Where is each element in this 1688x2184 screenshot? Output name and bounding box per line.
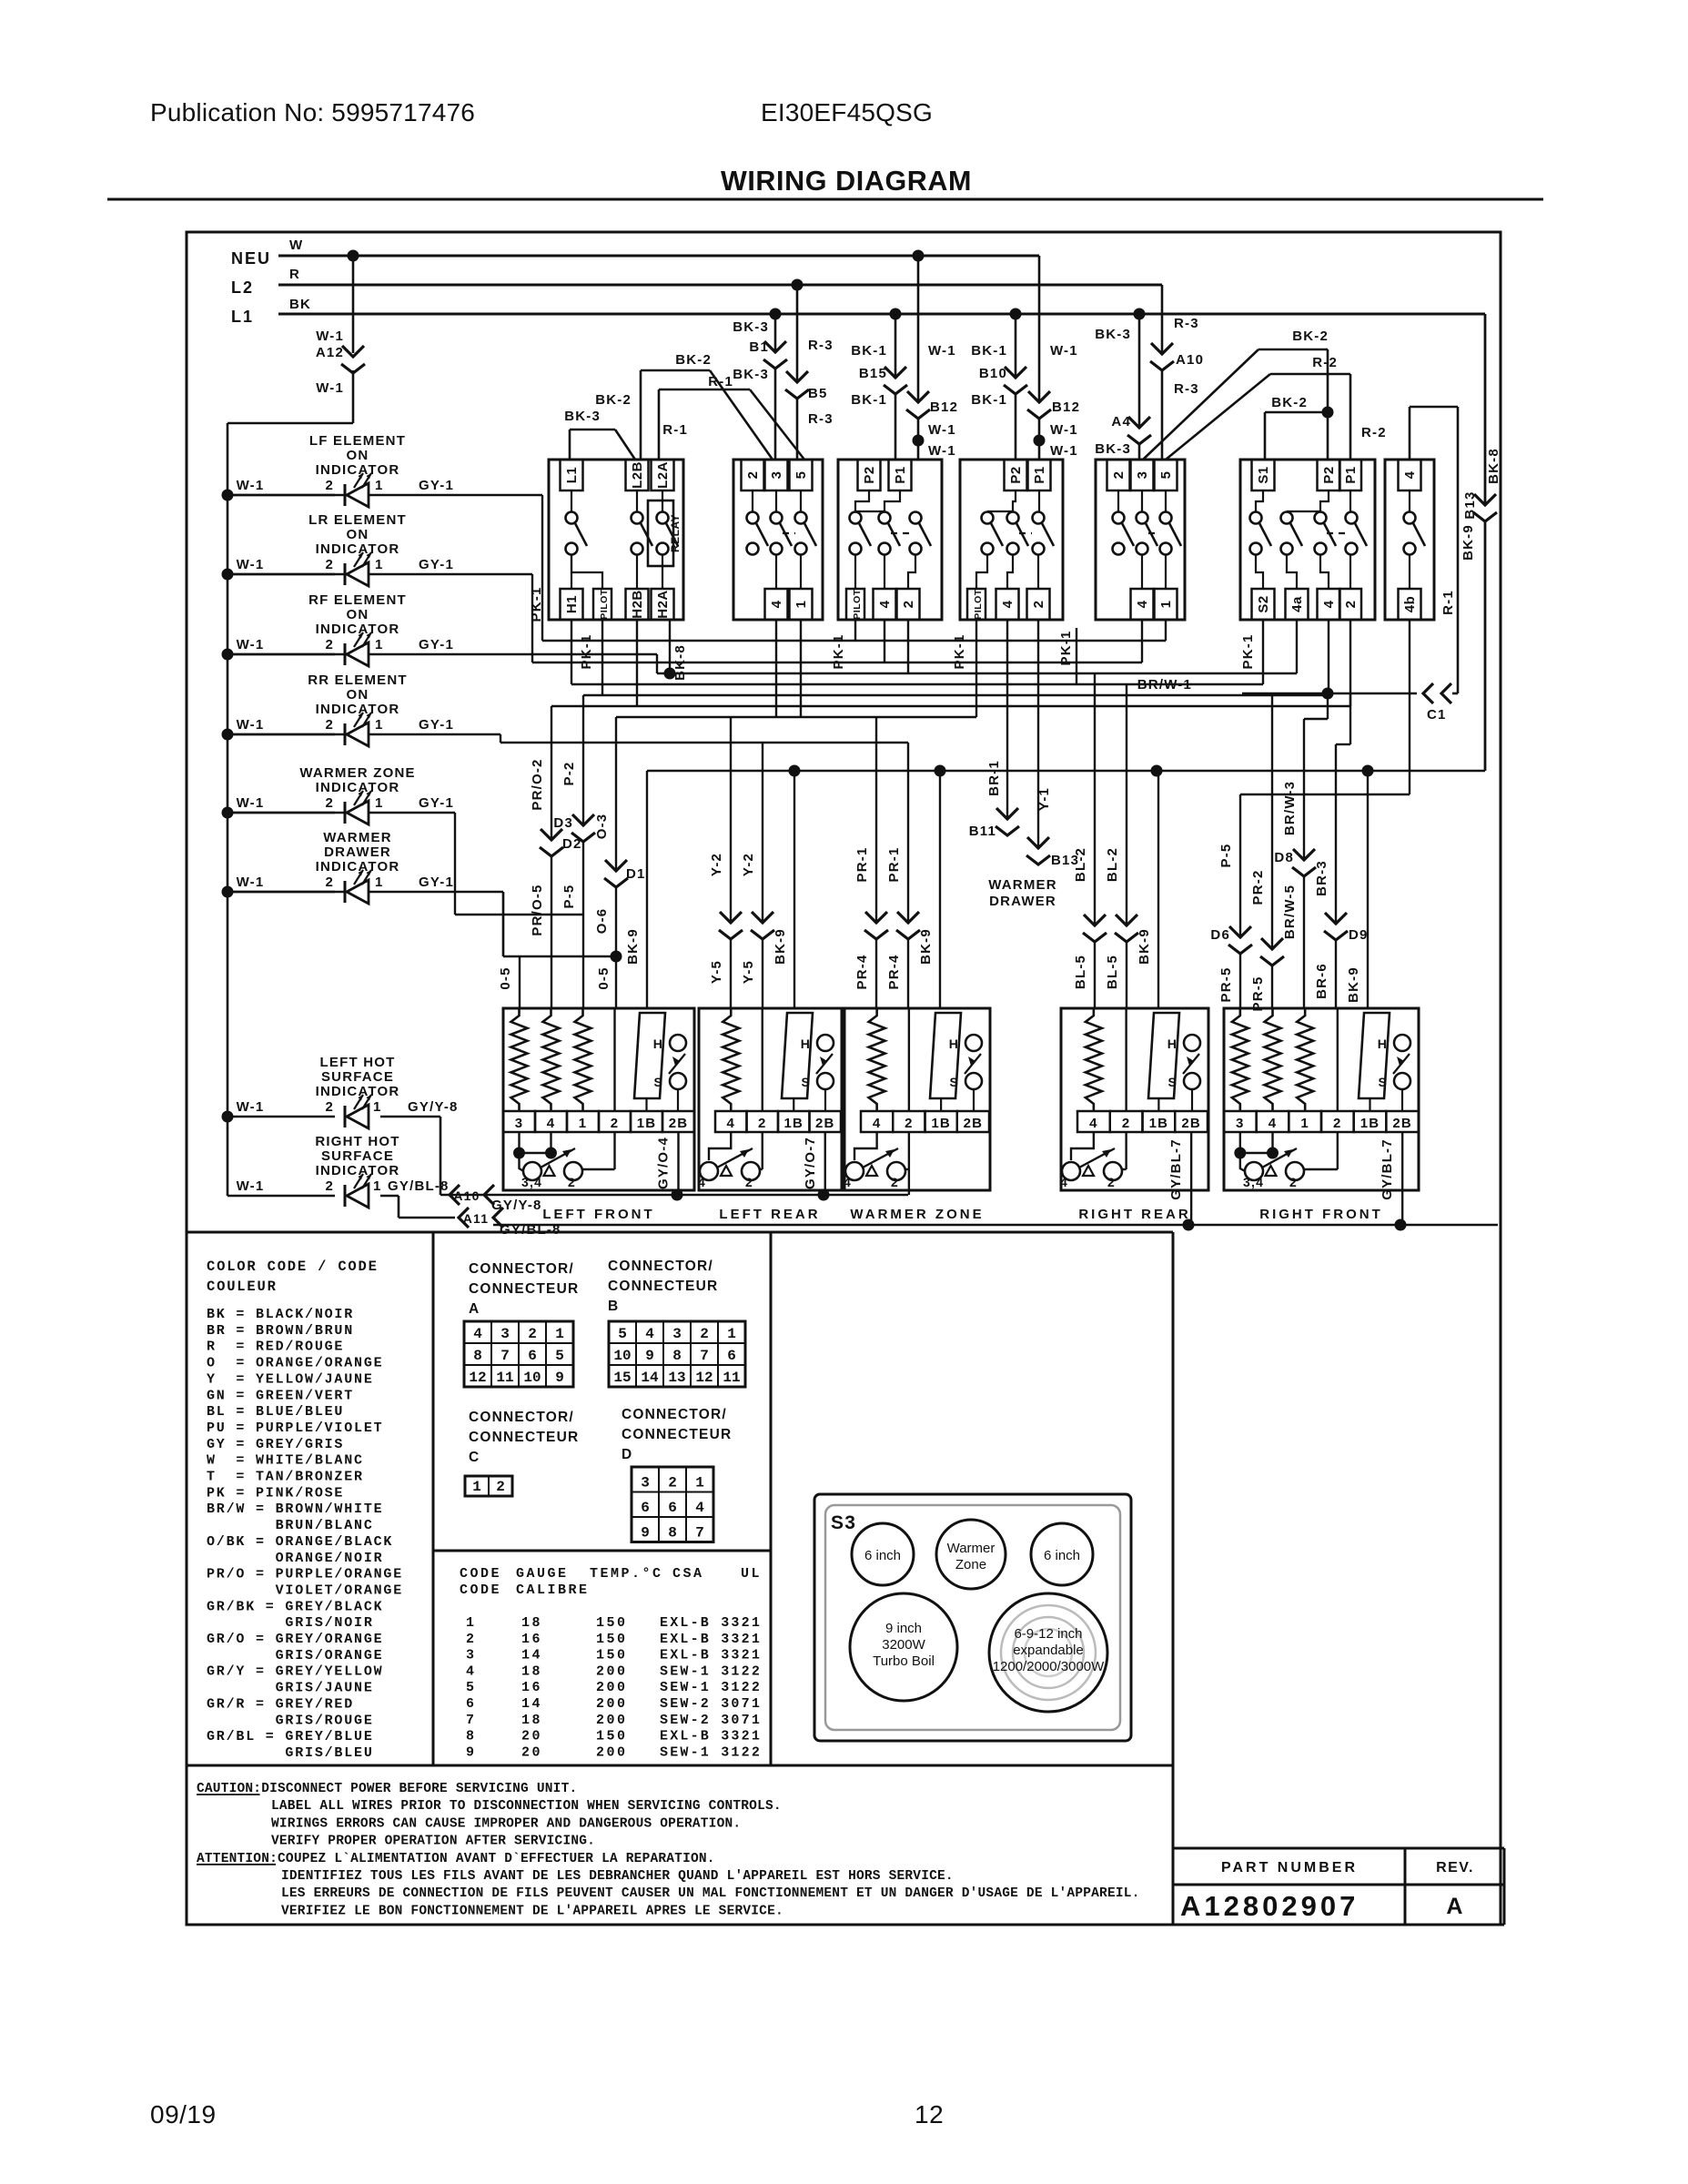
svg-text:150: 150: [596, 1729, 628, 1744]
svg-text:DRAWER: DRAWER: [324, 844, 391, 860]
svg-text:R-1: R-1: [1440, 590, 1456, 615]
svg-text:11: 11: [496, 1370, 513, 1386]
svg-text:14: 14: [521, 1696, 542, 1712]
svg-text:1: 1: [375, 875, 384, 890]
svg-text:BL = BLUE/BLEU: BL = BLUE/BLEU: [207, 1404, 344, 1420]
svg-text:20: 20: [521, 1744, 542, 1760]
svg-text:R-2: R-2: [1312, 355, 1338, 370]
svg-text:PR/O-5: PR/O-5: [530, 884, 545, 935]
svg-text:INDICATOR: INDICATOR: [316, 780, 400, 795]
svg-text:LEFT HOT: LEFT HOT: [320, 1055, 396, 1070]
svg-text:2: 2: [496, 1479, 505, 1495]
svg-text:CALIBRE: CALIBRE: [516, 1582, 590, 1598]
svg-text:1: 1: [466, 1615, 477, 1631]
svg-text:A10: A10: [1176, 352, 1204, 368]
svg-text:W-1: W-1: [928, 343, 956, 359]
svg-text:1: 1: [373, 1178, 382, 1194]
svg-text:20: 20: [521, 1729, 542, 1744]
svg-text:GY-1: GY-1: [419, 875, 454, 890]
svg-text:BR/W = BROWN/WHITE: BR/W = BROWN/WHITE: [207, 1501, 383, 1517]
svg-text:8: 8: [668, 1525, 677, 1542]
svg-text:GRIS/BLEU: GRIS/BLEU: [207, 1745, 374, 1761]
svg-text:EI30EF45QSG: EI30EF45QSG: [761, 98, 933, 126]
svg-text:D: D: [622, 1447, 632, 1462]
svg-text:GY = GREY/GRIS: GY = GREY/GRIS: [207, 1437, 344, 1452]
svg-text:GY-1: GY-1: [419, 478, 454, 493]
svg-text:INDICATOR: INDICATOR: [316, 462, 400, 478]
svg-text:BK-1: BK-1: [851, 392, 887, 408]
svg-text:Y-5: Y-5: [709, 960, 724, 984]
svg-text:1: 1: [373, 1099, 382, 1115]
svg-text:R-3: R-3: [808, 338, 834, 353]
svg-text:1: 1: [579, 1116, 588, 1131]
svg-text:1: 1: [1158, 601, 1174, 609]
svg-text:O/BK = ORANGE/BLACK: O/BK = ORANGE/BLACK: [207, 1534, 393, 1550]
svg-text:5: 5: [793, 471, 809, 480]
svg-text:200: 200: [596, 1744, 628, 1760]
svg-text:1B: 1B: [637, 1116, 657, 1131]
svg-text:W-1: W-1: [237, 1099, 265, 1115]
svg-text:9: 9: [641, 1525, 650, 1542]
svg-text:BK-2: BK-2: [595, 392, 632, 408]
svg-text:PR-2: PR-2: [1250, 870, 1266, 905]
svg-text:L2B: L2B: [630, 461, 645, 489]
svg-text:BK = BLACK/NOIR: BK = BLACK/NOIR: [207, 1307, 354, 1322]
svg-text:BRUN/BLANC: BRUN/BLANC: [207, 1518, 374, 1533]
svg-text:LABEL ALL WIRES PRIOR TO DISCO: LABEL ALL WIRES PRIOR TO DISCONNECTION W…: [271, 1799, 782, 1814]
svg-text:CONNECTOR/: CONNECTOR/: [469, 1410, 574, 1425]
svg-text:GY-1: GY-1: [419, 557, 454, 572]
svg-text:W-1: W-1: [237, 795, 265, 811]
svg-text:6 inch: 6 inch: [864, 1548, 901, 1563]
svg-text:GY-1: GY-1: [419, 795, 454, 811]
svg-text:Y-1: Y-1: [1036, 787, 1052, 811]
svg-text:Warmer: Warmer: [947, 1541, 996, 1556]
svg-text:WIRINGS ERRORS CAN CAUSE IMPRO: WIRINGS ERRORS CAN CAUSE IMPROPER AND DA…: [271, 1816, 741, 1831]
svg-text:BL-5: BL-5: [1073, 955, 1088, 989]
svg-text:S3: S3: [831, 1512, 856, 1533]
svg-text:3: 3: [500, 1326, 510, 1342]
svg-text:9: 9: [645, 1348, 654, 1364]
svg-text:4: 4: [769, 600, 784, 608]
svg-text:4: 4: [726, 1116, 735, 1131]
svg-text:150: 150: [596, 1648, 628, 1663]
svg-text:A12: A12: [316, 345, 344, 360]
svg-text:O = ORANGE/ORANGE: O = ORANGE/ORANGE: [207, 1356, 383, 1371]
svg-text:PR-1: PR-1: [886, 847, 902, 883]
svg-text:GN = GREEN/VERT: GN = GREEN/VERT: [207, 1388, 354, 1403]
svg-text:GR/O = GREY/ORANGE: GR/O = GREY/ORANGE: [207, 1632, 383, 1647]
svg-text:BL-2: BL-2: [1105, 847, 1120, 882]
svg-text:CSA: CSA: [672, 1566, 704, 1582]
svg-text:CONNECTOR/: CONNECTOR/: [469, 1261, 574, 1277]
svg-text:5: 5: [1158, 471, 1174, 480]
svg-text:3: 3: [1236, 1116, 1245, 1131]
svg-text:2: 2: [1289, 1175, 1298, 1189]
svg-text:2: 2: [611, 1116, 620, 1131]
svg-text:L1: L1: [231, 308, 254, 326]
svg-text:2: 2: [528, 1326, 537, 1342]
svg-text:2B: 2B: [1181, 1116, 1201, 1131]
svg-text:PR-5: PR-5: [1250, 976, 1266, 1012]
svg-text:2: 2: [891, 1175, 899, 1189]
svg-text:1: 1: [375, 795, 384, 811]
svg-text:2B: 2B: [669, 1116, 689, 1131]
svg-text:CODE: CODE: [460, 1582, 501, 1598]
svg-text:BK-8: BK-8: [1486, 448, 1501, 484]
svg-text:B11: B11: [969, 824, 996, 839]
svg-text:GR/BK = GREY/BLACK: GR/BK = GREY/BLACK: [207, 1599, 383, 1614]
svg-text:W-1: W-1: [1050, 422, 1078, 438]
svg-text:BL-2: BL-2: [1073, 847, 1088, 882]
svg-text:5: 5: [466, 1680, 477, 1695]
svg-text:BK-9: BK-9: [918, 928, 934, 965]
svg-text:15: 15: [613, 1370, 631, 1386]
svg-text:BR/W-3: BR/W-3: [1282, 781, 1298, 835]
svg-text:W = WHITE/BLANC: W = WHITE/BLANC: [207, 1453, 364, 1469]
svg-text:GR/Y = GREY/YELLOW: GR/Y = GREY/YELLOW: [207, 1664, 383, 1680]
svg-text:B12: B12: [1052, 399, 1080, 415]
svg-text:SEW-2 3071: SEW-2 3071: [660, 1713, 762, 1728]
svg-text:13: 13: [668, 1370, 685, 1386]
svg-text:200: 200: [596, 1680, 628, 1695]
svg-text:RR ELEMENT: RR ELEMENT: [308, 672, 408, 688]
svg-text:INDICATOR: INDICATOR: [316, 702, 400, 717]
svg-text:2B: 2B: [964, 1116, 984, 1131]
svg-text:1: 1: [375, 637, 384, 652]
svg-text:S: S: [1378, 1075, 1388, 1089]
svg-text:PILOT: PILOT: [973, 589, 984, 620]
svg-text:BK-9: BK-9: [1137, 928, 1152, 965]
svg-text:Y = YELLOW/JAUNE: Y = YELLOW/JAUNE: [207, 1371, 374, 1387]
svg-text:PU = PURPLE/VIOLET: PU = PURPLE/VIOLET: [207, 1421, 383, 1436]
svg-text:2: 2: [758, 1116, 767, 1131]
svg-text:B12: B12: [930, 399, 958, 415]
svg-text:WIRING DIAGRAM: WIRING DIAGRAM: [721, 166, 972, 197]
svg-text:2: 2: [325, 478, 334, 493]
svg-text:L1: L1: [564, 467, 580, 484]
svg-text:P-2: P-2: [561, 762, 577, 786]
svg-text:2: 2: [325, 717, 334, 733]
svg-text:PR-4: PR-4: [886, 955, 902, 990]
svg-text:16: 16: [521, 1680, 542, 1695]
svg-text:6: 6: [727, 1348, 736, 1364]
svg-text:SEW-1 3122: SEW-1 3122: [660, 1744, 762, 1760]
svg-text:ON: ON: [347, 527, 369, 542]
svg-text:PR-1: PR-1: [854, 847, 870, 883]
svg-text:S2: S2: [1256, 595, 1271, 612]
svg-text:3,4: 3,4: [521, 1175, 542, 1189]
svg-text:200: 200: [596, 1713, 628, 1728]
svg-text:CONNECTEUR: CONNECTEUR: [608, 1279, 718, 1294]
svg-text:2: 2: [1343, 601, 1359, 609]
svg-text:A4: A4: [1111, 414, 1131, 430]
svg-text:14: 14: [641, 1370, 659, 1386]
svg-text:7: 7: [695, 1525, 704, 1542]
svg-text:P-5: P-5: [1218, 844, 1234, 868]
svg-text:GAUGE: GAUGE: [516, 1566, 569, 1582]
svg-text:A12802907: A12802907: [1180, 1890, 1359, 1922]
svg-text:GR/R = GREY/RED: GR/R = GREY/RED: [207, 1696, 354, 1712]
svg-text:6: 6: [641, 1500, 650, 1516]
svg-text:W-1: W-1: [316, 329, 344, 344]
svg-text:6 inch: 6 inch: [1044, 1548, 1080, 1563]
svg-text:1: 1: [375, 478, 384, 493]
svg-text:RIGHT HOT: RIGHT HOT: [315, 1134, 399, 1149]
svg-text:3: 3: [672, 1326, 682, 1342]
svg-text:1B: 1B: [931, 1116, 951, 1131]
svg-text:VERIFIEZ LE BON FONCTIONNEMENT: VERIFIEZ LE BON FONCTIONNEMENT DE L'APPA…: [281, 1904, 783, 1918]
svg-text:2: 2: [325, 1178, 334, 1194]
svg-text:W-1: W-1: [1050, 343, 1078, 359]
svg-text:PR-5: PR-5: [1218, 967, 1234, 1003]
svg-text:IDENTIFIEZ TOUS LES FILS AVANT: IDENTIFIEZ TOUS LES FILS AVANT DE LES DE…: [281, 1869, 954, 1884]
svg-text:GY/Y-8: GY/Y-8: [408, 1099, 459, 1115]
svg-text:Y-2: Y-2: [741, 853, 756, 876]
svg-text:W-1: W-1: [237, 1178, 265, 1194]
svg-text:R: R: [289, 267, 300, 282]
svg-text:L2: L2: [231, 278, 254, 297]
svg-text:4: 4: [877, 600, 893, 608]
svg-text:4: 4: [1321, 600, 1337, 608]
svg-text:B10: B10: [979, 366, 1007, 381]
svg-text:6: 6: [528, 1348, 537, 1364]
svg-text:BR/W-5: BR/W-5: [1282, 885, 1298, 939]
svg-text:12: 12: [469, 1370, 486, 1386]
svg-text:2: 2: [1111, 471, 1127, 480]
svg-text:INDICATOR: INDICATOR: [316, 1084, 400, 1099]
svg-text:BK-2: BK-2: [1292, 329, 1329, 344]
svg-text:2B: 2B: [815, 1116, 835, 1131]
svg-text:GRIS/NOIR: GRIS/NOIR: [207, 1615, 374, 1631]
svg-text:4b: 4b: [1402, 596, 1418, 613]
svg-text:2: 2: [466, 1632, 477, 1647]
svg-text:W-1: W-1: [237, 717, 265, 733]
svg-text:GY/BL-7: GY/BL-7: [1380, 1138, 1395, 1200]
svg-text:BR-1: BR-1: [986, 760, 1002, 796]
svg-text:Publication No: 5995717476: Publication No: 5995717476: [150, 98, 475, 126]
svg-text:SEW-1 3122: SEW-1 3122: [660, 1680, 762, 1695]
svg-text:BL-5: BL-5: [1105, 955, 1120, 989]
svg-text:COULEUR: COULEUR: [207, 1279, 278, 1295]
svg-text:5: 5: [555, 1348, 564, 1364]
svg-text:1B: 1B: [783, 1116, 804, 1131]
svg-text:PILOT: PILOT: [852, 589, 863, 620]
svg-text:7: 7: [466, 1713, 477, 1728]
svg-text:SURFACE: SURFACE: [321, 1069, 394, 1085]
svg-text:RIGHT REAR: RIGHT REAR: [1078, 1207, 1190, 1222]
svg-text:BK-3: BK-3: [733, 319, 769, 335]
svg-text:L2A: L2A: [655, 461, 671, 489]
svg-text:4: 4: [873, 1116, 882, 1131]
svg-text:09/19: 09/19: [150, 2100, 217, 2128]
svg-text:8: 8: [466, 1729, 477, 1744]
svg-text:150: 150: [596, 1632, 628, 1647]
svg-text:D6: D6: [1210, 927, 1230, 943]
svg-text:UL: UL: [741, 1566, 762, 1582]
svg-text:2: 2: [901, 601, 916, 609]
svg-text:4: 4: [1402, 470, 1418, 479]
svg-text:3: 3: [1135, 471, 1150, 480]
svg-text:PK-1: PK-1: [579, 634, 594, 670]
svg-text:COLOR CODE / CODE: COLOR CODE / CODE: [207, 1259, 379, 1275]
svg-text:R-3: R-3: [808, 411, 834, 427]
svg-text:LEFT FRONT: LEFT FRONT: [542, 1207, 654, 1222]
svg-text:W-1: W-1: [928, 443, 956, 459]
svg-text:B15: B15: [859, 366, 887, 381]
svg-text:1: 1: [375, 557, 384, 572]
svg-text:W-1: W-1: [928, 422, 956, 438]
svg-text:BK-1: BK-1: [851, 343, 887, 359]
svg-text:DRAWER: DRAWER: [989, 894, 1056, 909]
svg-text:EXL-B 3321: EXL-B 3321: [660, 1615, 762, 1631]
svg-text:6-9-12 inch: 6-9-12 inch: [1014, 1626, 1082, 1642]
svg-text:P1: P1: [893, 466, 908, 483]
svg-text:B5: B5: [808, 386, 828, 401]
svg-text:RF ELEMENT: RF ELEMENT: [308, 592, 407, 608]
svg-text:W-1: W-1: [1050, 443, 1078, 459]
svg-text:D8: D8: [1274, 850, 1294, 865]
svg-text:WARMER: WARMER: [323, 830, 392, 845]
svg-text:1: 1: [375, 717, 384, 733]
svg-text:NEU: NEU: [231, 249, 271, 268]
svg-text:5: 5: [618, 1326, 627, 1342]
svg-text:TEMP.°C: TEMP.°C: [590, 1566, 663, 1582]
svg-text:2: 2: [905, 1116, 914, 1131]
svg-text:INDICATOR: INDICATOR: [316, 622, 400, 637]
svg-text:1: 1: [472, 1479, 481, 1495]
svg-text:BR/W-1: BR/W-1: [1137, 677, 1192, 693]
svg-text:14: 14: [521, 1648, 542, 1663]
svg-text:LES ERREURS DE CONNECTION DE F: LES ERREURS DE CONNECTION DE FILS PEUVEN…: [281, 1886, 1140, 1901]
svg-text:4: 4: [1000, 600, 1016, 608]
svg-text:Y-2: Y-2: [709, 853, 724, 876]
svg-text:2: 2: [1122, 1116, 1131, 1131]
svg-text:CONNECTOR/: CONNECTOR/: [622, 1407, 727, 1422]
svg-text:1: 1: [793, 601, 809, 609]
svg-text:RIGHT FRONT: RIGHT FRONT: [1259, 1207, 1383, 1222]
svg-text:W-1: W-1: [237, 557, 265, 572]
svg-text:18: 18: [521, 1713, 542, 1728]
svg-text:BK-3: BK-3: [1095, 441, 1131, 457]
svg-text:GY/O-7: GY/O-7: [803, 1137, 818, 1189]
svg-text:O-3: O-3: [594, 814, 610, 840]
svg-text:VERIFY PROPER OPERATION AFTER: VERIFY PROPER OPERATION AFTER SERVICING.: [271, 1835, 595, 1849]
svg-text:PK-1: PK-1: [952, 634, 967, 670]
svg-text:Y-5: Y-5: [741, 960, 756, 984]
svg-text:ON: ON: [347, 607, 369, 622]
svg-text:WARMER ZONE: WARMER ZONE: [299, 765, 415, 781]
svg-text:W-1: W-1: [237, 875, 265, 890]
svg-text:WARMER: WARMER: [988, 877, 1057, 893]
svg-text:BK-3: BK-3: [733, 367, 769, 382]
svg-text:1: 1: [1300, 1116, 1309, 1131]
svg-text:SEW-1 3122: SEW-1 3122: [660, 1663, 762, 1679]
svg-text:H1: H1: [564, 595, 580, 613]
svg-text:4: 4: [844, 1175, 852, 1189]
svg-text:R-1: R-1: [708, 374, 733, 389]
svg-text:LR ELEMENT: LR ELEMENT: [308, 512, 407, 528]
svg-text:P2: P2: [1008, 466, 1024, 483]
svg-text:4a: 4a: [1289, 596, 1305, 612]
svg-text:R = RED/ROUGE: R = RED/ROUGE: [207, 1340, 344, 1355]
svg-text:1: 1: [555, 1326, 564, 1342]
svg-text:O-6: O-6: [594, 908, 610, 935]
svg-text:expandable: expandable: [1013, 1643, 1084, 1658]
svg-text:EXL-B 3321: EXL-B 3321: [660, 1632, 762, 1647]
svg-text:H: H: [949, 1036, 959, 1051]
svg-text:2: 2: [1333, 1116, 1342, 1131]
svg-text:GY-1: GY-1: [419, 717, 454, 733]
svg-text:INDICATOR: INDICATOR: [316, 541, 400, 557]
svg-text:2: 2: [668, 1475, 677, 1491]
svg-text:S: S: [1167, 1075, 1178, 1089]
svg-text:R-2: R-2: [1361, 425, 1387, 440]
svg-text:2: 2: [568, 1175, 576, 1189]
svg-text:BK-9: BK-9: [1461, 524, 1476, 561]
svg-text:4: 4: [698, 1175, 706, 1189]
svg-text:18: 18: [521, 1615, 542, 1631]
svg-text:BR-6: BR-6: [1314, 963, 1329, 999]
svg-text:1: 1: [727, 1326, 736, 1342]
svg-text:B: B: [608, 1299, 619, 1314]
svg-text:S: S: [801, 1075, 811, 1089]
svg-text:6: 6: [668, 1500, 677, 1516]
svg-text:P2: P2: [1321, 466, 1337, 483]
svg-text:REV.: REV.: [1436, 1860, 1474, 1876]
svg-text:18: 18: [521, 1663, 542, 1679]
svg-text:1: 1: [695, 1475, 704, 1491]
svg-text:4: 4: [695, 1500, 704, 1516]
svg-text:2: 2: [745, 1175, 753, 1189]
svg-text:BR-3: BR-3: [1314, 860, 1329, 896]
svg-text:R-3: R-3: [1174, 381, 1199, 397]
svg-text:2: 2: [700, 1326, 709, 1342]
svg-text:S1: S1: [1256, 466, 1271, 483]
svg-text:GY/BL-7: GY/BL-7: [1168, 1138, 1184, 1200]
svg-text:EXL-B 3321: EXL-B 3321: [660, 1729, 762, 1744]
svg-text:BK-3: BK-3: [1095, 327, 1131, 342]
svg-text:CONNECTEUR: CONNECTEUR: [622, 1427, 732, 1442]
svg-text:Turbo Boil: Turbo Boil: [873, 1653, 935, 1669]
svg-text:BK-1: BK-1: [971, 392, 1007, 408]
svg-text:4: 4: [473, 1326, 482, 1342]
svg-text:BK-9: BK-9: [625, 928, 641, 965]
svg-text:3: 3: [769, 471, 784, 480]
svg-text:D2: D2: [562, 836, 582, 852]
svg-text:4: 4: [1060, 1175, 1068, 1189]
svg-text:ORANGE/NOIR: ORANGE/NOIR: [207, 1551, 383, 1566]
svg-text:8: 8: [672, 1348, 682, 1364]
svg-text:7: 7: [500, 1348, 510, 1364]
svg-text:4: 4: [1089, 1116, 1098, 1131]
svg-text:C1: C1: [1427, 707, 1447, 723]
svg-text:3: 3: [466, 1648, 477, 1663]
svg-text:GY-1: GY-1: [419, 637, 454, 652]
svg-text:RELAY: RELAY: [669, 514, 682, 552]
svg-text:R-3: R-3: [1174, 316, 1199, 331]
svg-text:2: 2: [745, 471, 761, 480]
svg-text:9: 9: [555, 1370, 564, 1386]
svg-text:200: 200: [596, 1696, 628, 1712]
svg-text:H2A: H2A: [655, 590, 671, 619]
svg-text:2: 2: [325, 557, 334, 572]
svg-text:W: W: [289, 238, 303, 253]
svg-text:BK-9: BK-9: [773, 928, 788, 965]
svg-text:1200/2000/3000W: 1200/2000/3000W: [993, 1659, 1105, 1674]
svg-text:4: 4: [1269, 1116, 1278, 1131]
svg-text:GRIS/ORANGE: GRIS/ORANGE: [207, 1648, 383, 1663]
